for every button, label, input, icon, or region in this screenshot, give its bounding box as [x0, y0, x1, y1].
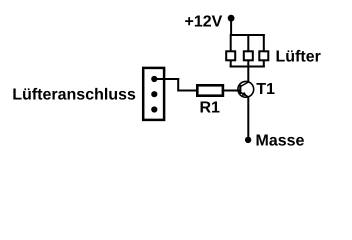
wire stub to fan 3 [263, 34, 265, 51]
pin 1 [151, 76, 157, 82]
fan M1 (Lüfter) [226, 51, 235, 60]
wire bend to connector pin 1 [154, 78, 179, 80]
label T1 [256, 83, 274, 94]
node +12V [228, 15, 235, 22]
connector J1 (Lüfteranschluss) [143, 68, 164, 120]
pin 2 [151, 91, 157, 97]
label +12V [185, 15, 222, 26]
wire stub below fan 3 [263, 61, 265, 68]
fan M3 (Lüfter) [259, 51, 268, 60]
label R1 [201, 101, 220, 112]
wire from +12V node down to top bus [230, 19, 232, 35]
wire stub below fan 2 [247, 61, 249, 68]
fan M2 (Lüfter) [244, 51, 253, 60]
wire stub to fan 1 [230, 34, 232, 51]
wire bottom bus [230, 66, 265, 68]
label Lüfter [277, 50, 321, 62]
wire base (transistor to R1) [224, 90, 241, 92]
wire top bus [230, 34, 265, 36]
transistor T1 [238, 81, 254, 97]
wire stub to fan 2 [247, 34, 249, 51]
wire emitter down to Masse [247, 97, 249, 138]
pin 3 [151, 106, 157, 112]
wire vertical bend [177, 78, 179, 92]
label Lüfteranschluss [13, 88, 135, 100]
wire R1 to bend [178, 90, 197, 92]
wire stub below fan 1 [230, 61, 232, 68]
node Masse [245, 137, 251, 143]
label Masse [257, 134, 304, 145]
wire collector [247, 67, 249, 83]
resistor R1 [197, 85, 223, 95]
